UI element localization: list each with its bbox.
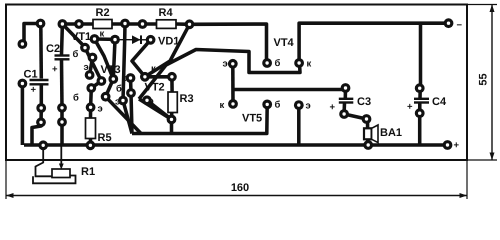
svg-text:C4: C4 [432, 96, 447, 108]
svg-text:VT3: VT3 [101, 64, 121, 76]
svg-text:э: э [223, 59, 228, 70]
svg-text:R2: R2 [96, 7, 110, 19]
svg-text:б: б [275, 58, 281, 69]
svg-text:э: э [84, 62, 89, 73]
svg-text:160: 160 [231, 182, 249, 194]
svg-text:R4: R4 [159, 7, 174, 19]
svg-text:+: + [52, 64, 58, 75]
svg-text:к: к [151, 64, 156, 75]
svg-text:б: б [73, 49, 79, 60]
svg-text:−: − [457, 20, 463, 31]
svg-text:BA1: BA1 [380, 127, 402, 139]
svg-text:R1: R1 [81, 166, 95, 178]
svg-text:э: э [306, 101, 311, 112]
svg-text:C3: C3 [357, 96, 371, 108]
svg-text:б: б [73, 93, 79, 104]
svg-text:б: б [275, 100, 281, 111]
svg-text:к: к [122, 73, 127, 84]
svg-text:э: э [115, 97, 120, 108]
svg-text:VT5: VT5 [242, 113, 262, 125]
svg-text:+: + [454, 140, 460, 151]
svg-text:R5: R5 [98, 132, 112, 144]
svg-text:R3: R3 [180, 93, 194, 105]
svg-text:к: к [220, 100, 225, 111]
svg-text:VT1: VT1 [71, 31, 91, 43]
svg-text:э: э [149, 96, 154, 107]
svg-text:C2: C2 [46, 43, 60, 55]
svg-text:+: + [31, 85, 37, 96]
svg-text:VD1: VD1 [158, 36, 179, 48]
svg-text:+: + [407, 102, 413, 113]
svg-text:C1: C1 [24, 69, 38, 81]
svg-text:б: б [116, 84, 122, 95]
svg-text:к: к [100, 29, 105, 40]
svg-text:VT2: VT2 [145, 82, 165, 94]
svg-text:э: э [98, 104, 103, 115]
svg-text:55: 55 [477, 73, 489, 85]
svg-text:к: к [307, 59, 312, 70]
svg-text:+: + [330, 102, 336, 113]
svg-text:VT4: VT4 [274, 37, 295, 49]
